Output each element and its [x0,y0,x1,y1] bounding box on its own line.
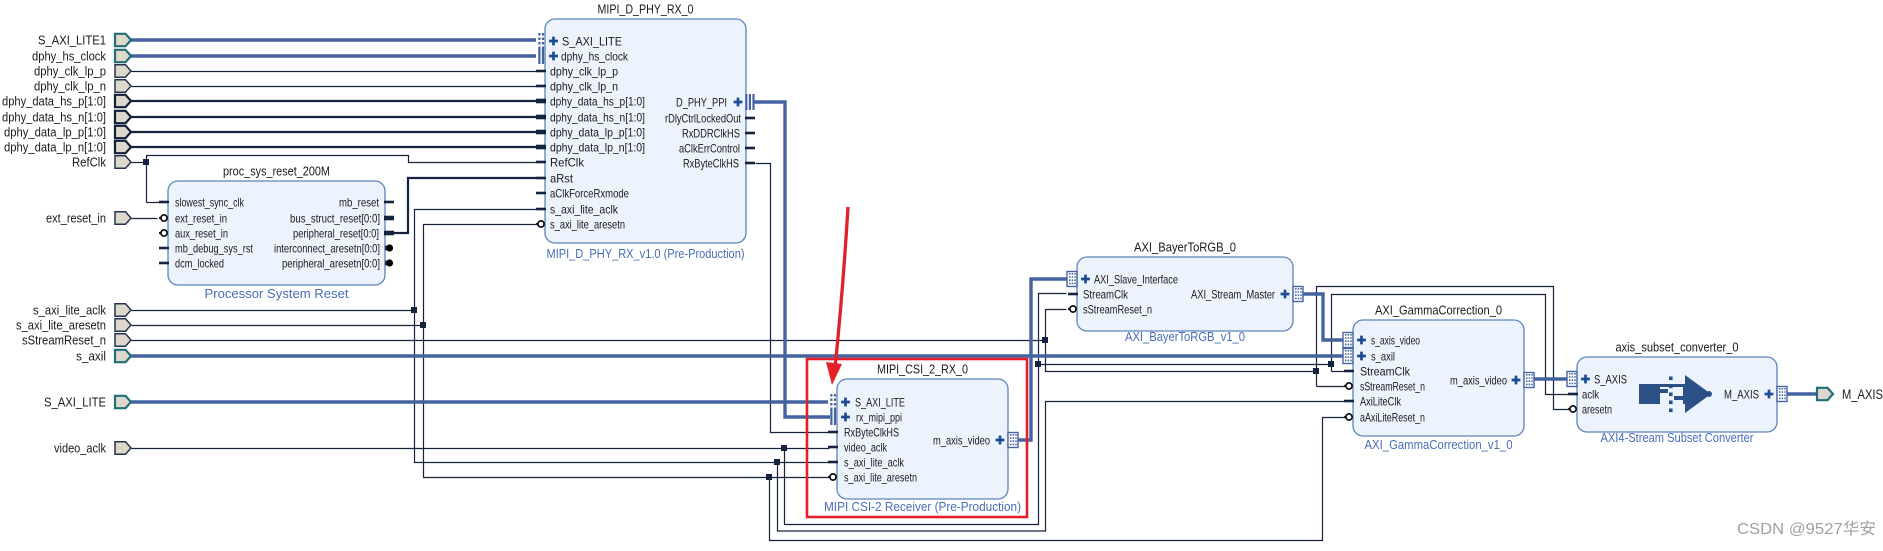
svg-text:rx_mipi_ppi: rx_mipi_ppi [856,410,902,424]
svg-text:peripheral_aresetn[0:0]: peripheral_aresetn[0:0] [282,256,380,270]
svg-text:aclk: aclk [1582,387,1600,401]
svg-text:aClkErrControl: aClkErrControl [679,141,740,155]
svg-text:mb_reset: mb_reset [339,195,380,209]
svg-text:proc_sys_reset_200M: proc_sys_reset_200M [223,164,330,179]
svg-text:ext_reset_in: ext_reset_in [175,211,227,225]
svg-text:dphy_data_hs_n[1:0]: dphy_data_hs_n[1:0] [550,110,645,124]
svg-text:dphy_clk_lp_n: dphy_clk_lp_n [550,79,618,93]
svg-text:s_axi_lite_aresetn: s_axi_lite_aresetn [16,318,106,333]
svg-text:m_axis_video: m_axis_video [1450,373,1507,387]
svg-text:dphy_hs_clock: dphy_hs_clock [32,49,106,64]
svg-text:dphy_data_hs_p[1:0]: dphy_data_hs_p[1:0] [550,94,645,108]
svg-text:sStreamReset_n: sStreamReset_n [1083,302,1152,316]
svg-text:S_AXI_LITE: S_AXI_LITE [855,395,905,409]
svg-text:m_axis_video: m_axis_video [933,433,990,447]
svg-text:aRst: aRst [550,171,574,185]
svg-text:s_axi_lite_aclk: s_axi_lite_aclk [844,455,905,469]
svg-text:dcm_locked: dcm_locked [175,256,224,270]
svg-text:interconnect_aresetn[0:0]: interconnect_aresetn[0:0] [274,241,380,255]
svg-text:AXI_Slave_Interface: AXI_Slave_Interface [1094,272,1178,286]
svg-text:S_AXI_LITE1: S_AXI_LITE1 [38,33,106,48]
svg-text:dphy_data_hs_n[1:0]: dphy_data_hs_n[1:0] [2,110,106,125]
svg-text:AXI_GammaCorrection_v1_0: AXI_GammaCorrection_v1_0 [1365,437,1513,452]
svg-text:peripheral_reset[0:0]: peripheral_reset[0:0] [293,226,379,240]
svg-text:video_aclk: video_aclk [54,441,106,456]
svg-text:rDlyCtrlLockedOut: rDlyCtrlLockedOut [665,111,742,125]
svg-text:dphy_data_lp_n[1:0]: dphy_data_lp_n[1:0] [4,140,106,155]
svg-text:D_PHY_PPI: D_PHY_PPI [676,95,727,109]
svg-text:RxByteClkHS: RxByteClkHS [844,425,899,439]
svg-text:RefClk: RefClk [550,155,585,169]
svg-text:MIPI_D_PHY_RX_0: MIPI_D_PHY_RX_0 [598,2,694,17]
svg-text:AXI_GammaCorrection_0: AXI_GammaCorrection_0 [1375,303,1502,318]
svg-text:MIPI_D_PHY_RX_v1.0 (Pre-Produc: MIPI_D_PHY_RX_v1.0 (Pre-Production) [547,246,745,261]
svg-text:sStreamReset_n: sStreamReset_n [1360,379,1425,393]
svg-text:dphy_clk_lp_p: dphy_clk_lp_p [34,64,106,79]
svg-text:s_axis_video: s_axis_video [1371,333,1420,347]
svg-text:RefClk: RefClk [72,155,106,170]
svg-text:dphy_clk_lp_n: dphy_clk_lp_n [34,79,106,94]
svg-text:s_axi_lite_aclk: s_axi_lite_aclk [33,303,106,318]
svg-text:dphy_hs_clock: dphy_hs_clock [561,49,629,63]
svg-text:AXI_BayerToRGB_0: AXI_BayerToRGB_0 [1134,240,1236,255]
svg-text:aresetn: aresetn [1582,402,1612,416]
svg-text:s_axil: s_axil [1371,349,1395,363]
svg-text:M_AXIS: M_AXIS [1842,386,1883,402]
svg-text:AXI_Stream_Master: AXI_Stream_Master [1191,287,1275,301]
svg-text:sStreamReset_n: sStreamReset_n [22,333,106,348]
svg-text:MIPI_CSI_2_RX_0: MIPI_CSI_2_RX_0 [877,362,968,377]
svg-text:AXI_BayerToRGB_v1_0: AXI_BayerToRGB_v1_0 [1125,329,1245,344]
svg-text:s_axil: s_axil [76,349,106,364]
svg-text:M_AXIS: M_AXIS [1724,387,1759,401]
svg-text:s_axi_lite_aresetn: s_axi_lite_aresetn [844,470,917,484]
svg-text:dphy_data_lp_p[1:0]: dphy_data_lp_p[1:0] [4,125,106,140]
svg-text:dphy_data_lp_n[1:0]: dphy_data_lp_n[1:0] [550,140,645,154]
svg-text:Processor System Reset: Processor System Reset [205,286,349,301]
svg-text:StreamClk: StreamClk [1083,287,1129,301]
svg-text:slowest_sync_clk: slowest_sync_clk [175,195,245,209]
svg-text:s_axi_lite_aresetn: s_axi_lite_aresetn [550,217,625,231]
svg-text:video_aclk: video_aclk [844,440,888,454]
svg-text:dphy_clk_lp_p: dphy_clk_lp_p [550,64,618,78]
svg-text:CSDN @9527华安: CSDN @9527华安 [1737,520,1876,538]
svg-text:s_axi_lite_aclk: s_axi_lite_aclk [550,202,619,216]
svg-text:StreamClk: StreamClk [1360,364,1411,378]
svg-text:AXI4-Stream Subset Converter: AXI4-Stream Subset Converter [1601,430,1755,445]
svg-text:mb_debug_sys_rst: mb_debug_sys_rst [175,241,254,255]
svg-text:S_AXIS: S_AXIS [1594,372,1627,386]
svg-text:RxDDRClkHS: RxDDRClkHS [682,126,740,140]
svg-text:ext_reset_in: ext_reset_in [46,211,106,226]
svg-text:S_AXI_LITE: S_AXI_LITE [562,34,622,48]
svg-text:RxByteClkHS: RxByteClkHS [683,156,739,170]
svg-text:dphy_data_hs_p[1:0]: dphy_data_hs_p[1:0] [2,94,106,109]
svg-text:S_AXI_LITE: S_AXI_LITE [44,395,106,410]
svg-text:AxiLiteClk: AxiLiteClk [1360,394,1402,408]
svg-text:axis_subset_converter_0: axis_subset_converter_0 [1616,340,1739,355]
svg-text:MIPI CSI-2 Receiver (Pre-Produ: MIPI CSI-2 Receiver (Pre-Production) [824,499,1021,514]
svg-text:aClkForceRxmode: aClkForceRxmode [550,186,629,200]
svg-text:aAxiLiteReset_n: aAxiLiteReset_n [1360,410,1425,424]
svg-text:aux_reset_in: aux_reset_in [175,226,228,240]
svg-text:bus_struct_reset[0:0]: bus_struct_reset[0:0] [290,211,380,225]
svg-text:dphy_data_lp_p[1:0]: dphy_data_lp_p[1:0] [550,125,645,139]
